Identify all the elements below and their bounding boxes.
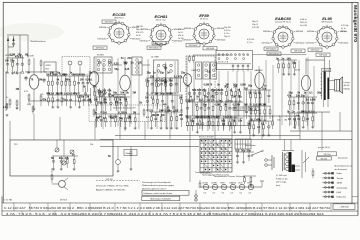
svg-text:C 12 110 2A7 . 5K734 6 63G294: C 12 110 2A7 . 5K734 6 63G294 08 40 04 2… [4, 207, 331, 210]
svg-text:EL95: EL95 [239, 182, 243, 184]
svg-text:220: 220 [98, 61, 103, 64]
svg-text:EF89: EF89 [192, 70, 198, 72]
svg-text:SW 5046: SW 5046 [155, 43, 163, 45]
svg-text:4Ω 5W: 4Ω 5W [344, 85, 350, 87]
svg-text:Erdbuchse: Erdbuchse [336, 197, 346, 199]
svg-text:1n: 1n [81, 95, 84, 98]
svg-text:DM 26x42: DM 26x42 [115, 96, 124, 98]
svg-text:ZF Verst.: ZF Verst. [200, 18, 209, 21]
svg-text:EF89: EF89 [221, 182, 225, 184]
svg-text:1M: 1M [244, 87, 247, 90]
svg-text:EM34: EM34 [248, 182, 252, 184]
svg-text:500: 500 [115, 101, 120, 104]
svg-text:2M: 2M [225, 84, 228, 87]
svg-text:5n: 5n [276, 57, 279, 60]
svg-text:50p: 50p [56, 71, 61, 74]
svg-text:0,25 2n: 0,25 2n [224, 30, 230, 32]
svg-text:6,3: 6,3 [204, 193, 206, 195]
svg-text:2M: 2M [133, 91, 136, 94]
svg-text:SW 5046: SW 5046 [294, 51, 302, 53]
svg-text:25p: 25p [145, 80, 150, 83]
svg-text:50p: 50p [247, 149, 252, 152]
svg-text:500: 500 [197, 89, 202, 92]
svg-text:Netzschalter: Netzschalter [245, 144, 256, 147]
svg-text:100: 100 [287, 57, 292, 60]
svg-text:30p: 30p [59, 157, 64, 160]
svg-text:25p: 25p [147, 71, 152, 74]
svg-text:SW 5046: SW 5046 [206, 48, 214, 50]
svg-text:50p: 50p [160, 92, 165, 95]
svg-text:EL95: EL95 [322, 16, 332, 21]
svg-text:Tonabn.: Tonabn. [336, 178, 344, 180]
svg-text:50p: 50p [210, 96, 215, 99]
svg-text:25p: 25p [160, 71, 165, 74]
svg-text:0,5M: 0,5M [240, 84, 245, 87]
svg-text:0,1 500: 0,1 500 [178, 29, 184, 31]
svg-text:5K734 6: 5K734 6 [60, 199, 67, 201]
svg-text:220: 220 [138, 61, 143, 64]
svg-text:DM 26x42: DM 26x42 [183, 40, 192, 42]
svg-text:1M: 1M [103, 111, 106, 114]
svg-text:2M: 2M [179, 97, 182, 100]
svg-text:Musikgerät 970: Musikgerät 970 [353, 5, 358, 43]
svg-text:25p: 25p [10, 60, 15, 63]
svg-text:25p: 25p [202, 89, 207, 92]
svg-text:0,5M: 0,5M [215, 104, 221, 107]
svg-text:4 7A . 7 5 2 6 . 5 1.6 . 2 66: 4 7A . 7 5 2 6 . 5 1.6 . 2 66 . 4 2 9 53… [6, 213, 325, 216]
svg-text:5k 5n: 5k 5n [341, 31, 346, 33]
svg-text:DM 26x42: DM 26x42 [262, 43, 271, 45]
svg-text:Skalenl.: Skalenl. [125, 153, 133, 155]
svg-text:M U K L M T A P: M U K L M T A P [199, 136, 214, 139]
svg-text:5n 0,5M: 5n 0,5M [300, 25, 307, 27]
svg-text:30p 0,1: 30p 0,1 [252, 21, 258, 23]
svg-text:2M: 2M [206, 99, 209, 102]
svg-text:Misch. Osz.: Misch. Osz. [156, 20, 167, 22]
svg-text:100: 100 [235, 149, 240, 152]
svg-text:6,3: 6,3 [231, 193, 233, 195]
svg-text:1M: 1M [133, 111, 136, 114]
svg-text:ZF-Durchl.: FM-Ber. ZF 10,7: ZF-Durchl.: FM-Ber. ZF 10,7 MHz [96, 184, 129, 187]
svg-text:220: 220 [163, 80, 168, 83]
svg-text:NF Endstufe: NF Endstufe [321, 21, 333, 24]
svg-text:ECC85: ECC85 [203, 182, 209, 184]
svg-text:0,25: 0,25 [125, 68, 130, 71]
svg-text:ECC85: ECC85 [27, 55, 35, 57]
svg-text:2n: 2n [244, 103, 247, 106]
svg-text:30p: 30p [238, 96, 243, 99]
svg-text:30p: 30p [89, 71, 94, 74]
svg-text:30p: 30p [292, 61, 297, 64]
svg-text:47k: 47k [65, 157, 70, 160]
svg-text:DM 26x42: DM 26x42 [217, 40, 226, 42]
svg-text:2M: 2M [223, 104, 226, 107]
svg-text:1M: 1M [65, 78, 68, 81]
svg-text:Änderungen vorbehalten: Änderungen vorbehalten [150, 197, 171, 200]
svg-text:Anschlußbuchsen an: Anschlußbuchsen an [334, 165, 352, 168]
svg-text:DM 26x42: DM 26x42 [98, 38, 107, 40]
svg-text:DM 26x42: DM 26x42 [105, 22, 114, 24]
svg-text:baut): baut) [276, 184, 281, 187]
svg-text:1M: 1M [39, 78, 42, 81]
svg-text:47k: 47k [178, 75, 183, 78]
svg-text:919 204: 919 204 [324, 154, 331, 156]
svg-text:10k: 10k [232, 96, 237, 99]
svg-text:SW 204: SW 204 [321, 158, 327, 160]
svg-text:SW5046: SW5046 [296, 31, 303, 33]
svg-text:5n 5k: 5n 5k [136, 35, 141, 37]
svg-text:0,5M: 0,5M [10, 53, 15, 56]
svg-text:0,1: 0,1 [261, 122, 265, 125]
svg-text:0,1: 0,1 [151, 97, 155, 100]
svg-text:5n: 5n [258, 91, 261, 94]
svg-text:SW204b: SW204b [99, 27, 106, 29]
svg-text:50p: 50p [248, 85, 253, 88]
svg-text:DM 26x42: DM 26x42 [311, 50, 320, 52]
svg-text:1n: 1n [169, 109, 172, 112]
svg-text:25p: 25p [301, 94, 306, 97]
svg-text:220: 220 [108, 61, 113, 64]
svg-text:47k 0,25: 47k 0,25 [136, 32, 143, 34]
svg-text:SW 5046-32: SW 5046-32 [149, 48, 160, 50]
svg-text:DM 26x42: DM 26x42 [306, 43, 315, 45]
svg-text:SW 204: SW 204 [250, 109, 257, 111]
svg-text:EABC80: EABC80 [230, 181, 237, 184]
svg-text:50p: 50p [241, 149, 246, 152]
svg-text:47k: 47k [107, 89, 112, 92]
svg-text:100: 100 [150, 75, 155, 78]
svg-text:220: 220 [149, 109, 154, 112]
svg-text:Widerstandswerte gemessen gege: Widerstandswerte gemessen gegen [142, 184, 174, 187]
svg-text:2n: 2n [281, 57, 284, 60]
svg-text:DM 26x42: DM 26x42 [174, 41, 183, 43]
svg-text:1n: 1n [195, 104, 198, 107]
svg-text:0,25 2M: 0,25 2M [252, 27, 259, 29]
svg-text:1M: 1M [63, 73, 66, 76]
svg-text:0,5M: 0,5M [109, 94, 115, 97]
svg-text:SW 5046-32: SW 5046-32 [266, 49, 277, 51]
svg-text:Behelfsantenne: Behelfsantenne [31, 40, 47, 43]
svg-text:0,25 47k: 0,25 47k [247, 39, 254, 41]
svg-text:10k: 10k [238, 119, 243, 122]
svg-text:Gedruckte Schaltung 919: Gedruckte Schaltung 919 [113, 107, 136, 110]
svg-text:25p: 25p [181, 72, 186, 75]
svg-text:DM 26x42: DM 26x42 [340, 43, 349, 45]
svg-text:ECH81: ECH81 [212, 182, 218, 184]
svg-text:25p 0,1: 25p 0,1 [224, 36, 230, 38]
svg-text:DM 26x42: DM 26x42 [140, 40, 149, 42]
svg-text:SW 5046: SW 5046 [319, 55, 327, 57]
svg-text:Gesamtansicht Chassis „Rücksei: Gesamtansicht Chassis „Rückseite“ [214, 175, 246, 178]
svg-text:919 321: 919 321 [106, 179, 113, 181]
svg-text:25p 0,1: 25p 0,1 [252, 24, 258, 26]
svg-text:SW5046: SW5046 [217, 28, 224, 30]
svg-text:1n: 1n [155, 92, 158, 95]
svg-text:25p 47k: 25p 47k [224, 27, 231, 29]
svg-text:100: 100 [211, 99, 216, 102]
svg-text:Tastensatz 6-fach: Tastensatz 6-fach [195, 171, 210, 174]
svg-text:EABC80: EABC80 [275, 16, 292, 21]
svg-text:2n: 2n [118, 99, 121, 102]
svg-text:Netzstecker: Netzstecker [338, 157, 348, 160]
svg-text:DM 26x42: DM 26x42 [296, 43, 305, 45]
svg-text:M U K L T A: M U K L T A [218, 61, 229, 64]
svg-text:2M 0,25: 2M 0,25 [300, 22, 307, 24]
svg-text:2M: 2M [179, 114, 182, 117]
svg-text:30p: 30p [317, 92, 322, 95]
svg-text:0,25 50p: 0,25 50p [341, 25, 348, 27]
svg-text:25p: 25p [18, 53, 23, 56]
svg-text:ECH81: ECH81 [155, 14, 169, 19]
svg-text:1n: 1n [72, 153, 75, 156]
svg-text:SW204b: SW204b [184, 28, 191, 30]
svg-text:Demod. NF Vorst.: Demod. NF Vorst. [275, 21, 291, 24]
svg-text:30p: 30p [289, 92, 294, 95]
svg-text:Farbkennz. siehe Liste der Ger: Farbkennz. siehe Liste der Geräte [143, 192, 172, 195]
svg-text:220 V einge-: 220 V einge- [276, 182, 287, 184]
svg-text:47k 2n: 47k 2n [178, 35, 184, 37]
svg-text:(nur bei 220 V): (nur bei 220 V) [318, 147, 330, 149]
svg-text:2M: 2M [232, 119, 235, 122]
svg-text:Umschalt 919: Umschalt 919 [234, 108, 246, 111]
svg-text:30p: 30p [204, 96, 209, 99]
svg-text:DM 26x42: DM 26x42 [189, 45, 198, 47]
svg-text:1n: 1n [229, 89, 232, 92]
svg-text:6,3: 6,3 [213, 193, 215, 195]
svg-text:Lautspr.: Lautspr. [344, 81, 351, 84]
svg-text:EL95: EL95 [295, 70, 301, 72]
svg-text:2M: 2M [284, 119, 287, 121]
svg-text:500: 500 [110, 117, 115, 120]
svg-text:6,3: 6,3 [222, 193, 224, 195]
svg-text:100: 100 [123, 111, 128, 114]
svg-text:6,3: 6,3 [249, 193, 251, 195]
svg-text:+ MW 834: + MW 834 [339, 207, 349, 209]
svg-text:2M: 2M [16, 88, 19, 91]
svg-text:Zeichnungen mit Umschaltpunkt: Zeichnungen mit Umschaltpunkt [142, 181, 171, 184]
svg-text:1M: 1M [5, 60, 8, 63]
svg-text:Abgleich: AM-Ber. ZF 460 kH: Abgleich: AM-Ber. ZF 460 kHz [96, 188, 125, 191]
svg-text:2M: 2M [50, 92, 53, 95]
svg-text:0,25: 0,25 [99, 94, 104, 97]
svg-text:C 12 7A7: C 12 7A7 [4, 198, 13, 201]
svg-text:2n 47k: 2n 47k [178, 38, 184, 40]
svg-text:50p: 50p [115, 68, 120, 71]
svg-text:100 2M: 100 2M [136, 26, 143, 28]
svg-text:(C 1500 und: (C 1500 und [276, 175, 286, 177]
svg-text:220: 220 [127, 57, 132, 60]
svg-text:6,3: 6,3 [240, 193, 242, 195]
svg-text:5n: 5n [94, 111, 97, 114]
svg-text:1M: 1M [262, 103, 265, 106]
svg-text:SW204b: SW204b [307, 31, 314, 33]
svg-text:der Rückwand: der Rückwand [334, 168, 346, 171]
svg-text:1n 0,1: 1n 0,1 [178, 32, 183, 34]
svg-text:500: 500 [190, 99, 195, 102]
svg-text:50p: 50p [119, 117, 124, 120]
svg-text:0,5M 2n: 0,5M 2n [300, 19, 307, 21]
svg-text:EF89: EF89 [199, 13, 209, 18]
svg-text:500: 500 [50, 71, 55, 74]
svg-text:5n 1n: 5n 1n [341, 28, 346, 30]
svg-text:10k: 10k [90, 144, 93, 146]
svg-text:2n: 2n [68, 79, 71, 82]
svg-text:10k: 10k [92, 85, 97, 88]
svg-text:10,7 MHz: 10,7 MHz [151, 56, 159, 58]
svg-text:2M: 2M [72, 73, 75, 76]
svg-text:ECH81: ECH81 [97, 54, 104, 56]
svg-text:1M: 1M [25, 53, 28, 56]
svg-text:DM 26x42: DM 26x42 [96, 48, 105, 50]
svg-text:ECC85: ECC85 [113, 12, 127, 17]
svg-text:220: 220 [219, 89, 224, 92]
svg-text:2n: 2n [292, 110, 295, 113]
svg-text:50p: 50p [113, 91, 118, 94]
svg-text:500: 500 [81, 73, 86, 76]
svg-text:500: 500 [199, 99, 204, 102]
svg-text:1M: 1M [161, 114, 164, 117]
svg-text:0,5M: 0,5M [98, 91, 103, 94]
svg-text:Radio: Radio [336, 173, 342, 175]
svg-text:30p: 30p [168, 80, 173, 83]
svg-text:10k: 10k [120, 91, 125, 94]
svg-text:10k: 10k [262, 87, 267, 90]
svg-text:1M: 1M [124, 62, 127, 65]
svg-text:0,5M: 0,5M [204, 84, 209, 87]
svg-text:2n: 2n [306, 98, 309, 101]
svg-text:220: 220 [98, 101, 103, 104]
svg-text:1M: 1M [124, 99, 127, 102]
svg-text:10k: 10k [159, 109, 164, 112]
svg-text:0,1 1n: 0,1 1n [247, 42, 252, 44]
svg-text:0,1 5n: 0,1 5n [224, 33, 229, 35]
svg-text:2n: 2n [170, 92, 173, 95]
svg-text:30p 0,1: 30p 0,1 [136, 29, 142, 31]
svg-text:918220: 918220 [344, 88, 350, 90]
svg-text:500: 500 [221, 119, 226, 122]
svg-text:SW204b: SW204b [263, 31, 270, 33]
svg-text:TA/TB: TA/TB [336, 182, 342, 185]
svg-text:Meßwerte gelten für 220 V~: Meßwerte gelten für 220 V~ [142, 187, 168, 190]
svg-text:R 360 nur bei: R 360 nur bei [276, 177, 288, 180]
svg-text:Zweitlautspr.: Zweitlautspr. [336, 186, 348, 189]
svg-text:0,5M: 0,5M [310, 98, 316, 101]
svg-text:0,25: 0,25 [114, 62, 119, 65]
svg-text:UKW Verst.: UKW Verst. [114, 17, 125, 20]
svg-text:100: 100 [80, 78, 85, 81]
svg-text:30p: 30p [203, 104, 208, 107]
svg-text:50p: 50p [233, 84, 238, 87]
svg-text:UKW: UKW [336, 192, 341, 194]
